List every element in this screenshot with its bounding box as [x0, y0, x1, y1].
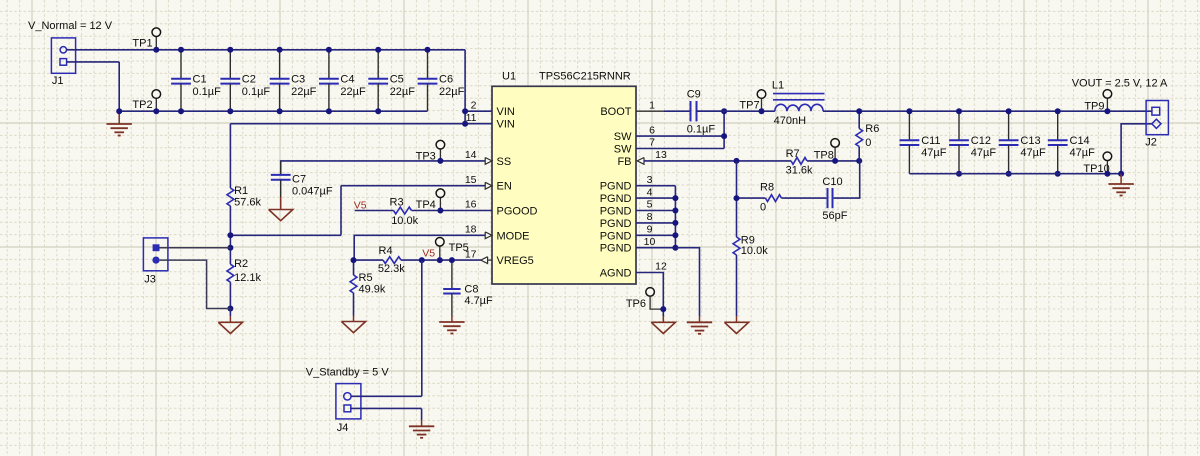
svg-text:13: 13: [655, 149, 667, 161]
svg-text:0: 0: [865, 137, 871, 149]
svg-text:PGOOD: PGOOD: [497, 206, 538, 218]
svg-text:470nH: 470nH: [774, 115, 806, 127]
svg-text:57.6k: 57.6k: [234, 196, 261, 208]
svg-text:47µF: 47µF: [1020, 147, 1046, 159]
svg-text:V_Normal = 12 V: V_Normal = 12 V: [28, 20, 113, 32]
svg-text:BOOT: BOOT: [600, 106, 631, 118]
svg-text:1: 1: [649, 99, 655, 111]
svg-text:4.7µF: 4.7µF: [464, 295, 493, 307]
svg-text:9: 9: [647, 224, 653, 236]
svg-text:TP5: TP5: [449, 242, 469, 254]
svg-text:C8: C8: [464, 284, 478, 296]
svg-text:22µF: 22µF: [390, 86, 416, 98]
svg-text:R4: R4: [379, 245, 393, 257]
svg-text:C14: C14: [1070, 135, 1090, 147]
svg-text:0: 0: [760, 201, 766, 213]
svg-text:56pF: 56pF: [822, 210, 847, 222]
svg-text:0.1µF: 0.1µF: [687, 124, 716, 136]
svg-text:TP2: TP2: [132, 99, 152, 111]
svg-text:C7: C7: [292, 174, 306, 186]
svg-text:VOUT = 2.5 V, 12 A: VOUT = 2.5 V, 12 A: [1072, 78, 1168, 90]
svg-text:PGND: PGND: [600, 243, 632, 255]
svg-text:R2: R2: [234, 258, 248, 270]
svg-text:J4: J4: [337, 422, 349, 434]
svg-text:V5: V5: [354, 199, 367, 211]
svg-text:4: 4: [647, 186, 653, 198]
svg-text:18: 18: [465, 224, 477, 236]
svg-text:C12: C12: [971, 135, 991, 147]
svg-text:16: 16: [465, 199, 477, 211]
svg-text:R3: R3: [390, 196, 404, 208]
svg-text:TP3: TP3: [416, 151, 436, 163]
svg-text:EN: EN: [497, 181, 512, 193]
svg-text:C11: C11: [921, 135, 940, 147]
svg-text:5: 5: [647, 199, 653, 211]
svg-text:C2: C2: [242, 74, 256, 86]
svg-text:47µF: 47µF: [921, 147, 947, 159]
svg-text:R8: R8: [760, 182, 774, 194]
svg-text:8: 8: [647, 211, 653, 223]
svg-text:22µF: 22µF: [340, 86, 366, 98]
svg-text:C6: C6: [439, 74, 453, 86]
svg-text:14: 14: [465, 149, 477, 161]
svg-text:TP7: TP7: [739, 99, 759, 111]
svg-text:AGND: AGND: [600, 268, 632, 280]
svg-text:0.1µF: 0.1µF: [242, 86, 271, 98]
svg-text:10.0k: 10.0k: [391, 215, 418, 227]
svg-text:C3: C3: [291, 74, 305, 86]
svg-text:31.6k: 31.6k: [786, 165, 813, 177]
svg-text:47µF: 47µF: [971, 147, 997, 159]
svg-text:15: 15: [465, 174, 477, 186]
svg-text:TP4: TP4: [416, 199, 436, 211]
svg-text:SW: SW: [614, 131, 632, 143]
svg-text:49.9k: 49.9k: [359, 284, 386, 296]
svg-text:22µF: 22µF: [439, 86, 465, 98]
svg-text:3: 3: [647, 174, 653, 186]
svg-text:C4: C4: [340, 74, 354, 86]
svg-text:12: 12: [655, 261, 667, 273]
svg-text:L1: L1: [772, 80, 784, 92]
svg-text:12.1k: 12.1k: [234, 272, 261, 284]
svg-text:J2: J2: [1145, 137, 1157, 149]
svg-text:V5: V5: [422, 248, 435, 260]
svg-text:U1: U1: [502, 71, 516, 83]
svg-text:22µF: 22µF: [291, 86, 317, 98]
svg-text:52.3k: 52.3k: [378, 263, 405, 275]
svg-text:SS: SS: [497, 156, 512, 168]
svg-text:C13: C13: [1020, 135, 1040, 147]
svg-text:PGND: PGND: [600, 230, 632, 242]
svg-text:R7: R7: [786, 148, 800, 160]
svg-text:C10: C10: [822, 176, 842, 188]
svg-text:0.1µF: 0.1µF: [193, 86, 222, 98]
svg-text:7: 7: [649, 137, 655, 149]
svg-text:6: 6: [649, 124, 655, 136]
svg-text:SW: SW: [614, 144, 632, 156]
svg-text:V_Standby = 5 V: V_Standby = 5 V: [306, 366, 390, 378]
svg-text:TPS56C215RNNR: TPS56C215RNNR: [539, 71, 631, 83]
svg-text:2: 2: [471, 99, 477, 111]
svg-text:R5: R5: [359, 272, 373, 284]
svg-text:FB: FB: [617, 156, 631, 168]
svg-text:PGND: PGND: [600, 206, 632, 218]
svg-text:R1: R1: [234, 185, 248, 197]
svg-text:TP6: TP6: [626, 298, 646, 310]
svg-text:TP1: TP1: [132, 38, 152, 50]
svg-text:J3: J3: [144, 273, 156, 285]
svg-text:C5: C5: [390, 74, 404, 86]
svg-text:VIN: VIN: [497, 106, 515, 118]
svg-text:10.0k: 10.0k: [741, 245, 768, 257]
svg-text:47µF: 47µF: [1070, 147, 1096, 159]
svg-text:PGND: PGND: [600, 218, 632, 230]
svg-text:PGND: PGND: [600, 181, 632, 193]
svg-text:TP9: TP9: [1084, 100, 1104, 112]
svg-text:C1: C1: [193, 74, 207, 86]
svg-text:R6: R6: [865, 123, 879, 135]
svg-text:VIN: VIN: [497, 119, 515, 131]
svg-text:C9: C9: [687, 89, 701, 101]
svg-text:TP8: TP8: [814, 150, 834, 162]
svg-text:0.047µF: 0.047µF: [292, 186, 333, 198]
svg-text:10: 10: [644, 236, 656, 248]
svg-text:VREG5: VREG5: [497, 255, 534, 267]
svg-text:J1: J1: [52, 75, 64, 87]
svg-text:PGND: PGND: [600, 193, 632, 205]
svg-text:MODE: MODE: [497, 230, 530, 242]
